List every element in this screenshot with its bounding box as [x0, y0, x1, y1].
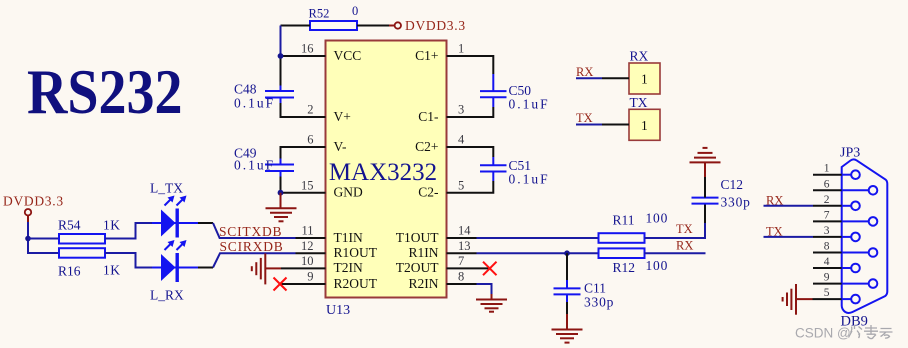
svg-text:TX: TX	[630, 95, 648, 110]
U13 designator	[326, 303, 350, 318]
svg-text:SCIRXDB: SCIRXDB	[220, 239, 284, 254]
svg-text:V-: V-	[334, 139, 348, 154]
svg-text:T1OUT: T1OUT	[396, 230, 439, 245]
svg-text:8: 8	[458, 270, 464, 284]
power port DVDD3.3 left	[3, 194, 64, 223]
svg-text:6: 6	[307, 133, 313, 147]
pin 3	[447, 103, 477, 117]
node junction pin15	[278, 190, 284, 196]
svg-text:3: 3	[824, 225, 830, 237]
svg-text:C1+: C1+	[415, 48, 438, 63]
wire R52 left	[281, 25, 311, 27]
pin name T2OUT	[396, 260, 439, 275]
svg-text:C48: C48	[234, 82, 257, 97]
resistor R52	[309, 4, 359, 30]
wire LED TX out	[198, 222, 213, 224]
svg-text:V+: V+	[334, 109, 351, 124]
svg-text:R54: R54	[58, 218, 81, 233]
pin 16	[283, 42, 326, 57]
connector JP3 shell	[840, 146, 887, 313]
svg-text:RS232: RS232	[27, 57, 183, 127]
svg-text:1: 1	[458, 42, 464, 56]
net label RX right	[766, 194, 783, 208]
resistor R16	[58, 248, 105, 278]
wire R54 to LED TX	[105, 223, 152, 239]
JP3 pin 2 RX	[764, 194, 860, 210]
svg-text:L_RX: L_RX	[150, 288, 184, 303]
net label TX right	[766, 225, 783, 239]
op-amp U13 MAX3232 body	[326, 41, 447, 298]
svg-text:7: 7	[458, 254, 464, 268]
value 100 R12	[646, 258, 669, 273]
wire C51 to pin5	[477, 172, 494, 193]
svg-text:0: 0	[352, 4, 358, 18]
pin name T1IN	[334, 230, 363, 245]
svg-text:100: 100	[646, 211, 669, 226]
wire C50 to pin3	[477, 97, 494, 117]
svg-text:1K: 1K	[103, 218, 121, 233]
svg-text:R16: R16	[58, 264, 81, 279]
svg-text:14: 14	[458, 224, 471, 238]
capacitor C48	[234, 82, 294, 111]
ground at JP3 pin5	[783, 284, 813, 315]
svg-text:330p: 330p	[584, 295, 614, 310]
wire LED RX out	[198, 267, 213, 269]
pin name R2IN	[409, 276, 439, 291]
svg-text:0.1uF: 0.1uF	[234, 158, 275, 173]
svg-text:0.1uF: 0.1uF	[509, 172, 550, 187]
svg-text:TX: TX	[676, 222, 693, 236]
ground at pin10	[252, 253, 281, 284]
ground below pin15	[266, 193, 297, 222]
pin name T1OUT	[396, 230, 439, 245]
svg-text:9: 9	[307, 270, 313, 284]
svg-text:11: 11	[301, 224, 313, 238]
svg-text:4: 4	[824, 256, 830, 268]
wire pin8 to ground	[477, 284, 492, 294]
wire C48 to pin2	[281, 98, 296, 118]
svg-text:2: 2	[307, 103, 313, 117]
JP3 pin 9	[813, 272, 877, 288]
svg-text:7: 7	[824, 209, 830, 221]
resistor R54	[58, 218, 105, 244]
svg-text:5: 5	[458, 178, 464, 192]
svg-text:L_TX: L_TX	[150, 181, 183, 196]
svg-text:SCITXDB: SCITXDB	[219, 224, 282, 239]
LED L_RX	[150, 240, 198, 303]
pin name T2IN	[334, 260, 363, 275]
ground above C12	[690, 148, 721, 198]
svg-text:TX: TX	[576, 111, 593, 125]
svg-text:1: 1	[641, 72, 648, 87]
pin 12	[296, 239, 326, 253]
ground at pin8	[476, 294, 507, 312]
svg-text:R1IN: R1IN	[409, 245, 439, 260]
svg-text:C2+: C2+	[415, 139, 438, 154]
pin 5	[447, 178, 477, 192]
svg-text:RX: RX	[766, 194, 783, 208]
svg-text:R11: R11	[613, 213, 635, 228]
JP3 pin 5 ground	[813, 287, 860, 303]
pin 4	[447, 133, 477, 147]
no-connect X pin9	[274, 278, 287, 291]
svg-text:CSDN @: CSDN @	[795, 325, 851, 340]
JP3 pin 6	[813, 178, 877, 194]
svg-text:GND: GND	[334, 184, 363, 199]
JP3 pin 7	[813, 209, 877, 225]
pin name C2-	[418, 184, 439, 199]
pin 9	[280, 270, 326, 284]
svg-text:R52: R52	[309, 7, 330, 21]
pin name VCC	[334, 48, 362, 63]
capacitor C11	[554, 253, 615, 309]
svg-text:T1IN: T1IN	[334, 230, 363, 245]
svg-text:R2IN: R2IN	[409, 276, 439, 291]
svg-text:10: 10	[301, 254, 314, 268]
LED L_TX	[150, 181, 198, 238]
pin 10	[281, 254, 326, 268]
pin 14	[447, 224, 477, 238]
svg-text:100: 100	[646, 258, 669, 273]
pin name C1-	[418, 109, 439, 124]
no-connect X pin7	[483, 262, 497, 276]
svg-text:16: 16	[301, 42, 314, 56]
svg-text:C11: C11	[584, 281, 606, 296]
wire diagonal to SCIRXDB	[213, 253, 296, 267]
pin name C1+	[415, 48, 438, 63]
capacitor C49	[234, 146, 294, 173]
svg-text:RX: RX	[630, 49, 649, 64]
wire DVDD to resistors	[28, 222, 59, 253]
pin 2	[296, 103, 326, 117]
wire R11 to C12	[645, 223, 706, 238]
wire pin14 to R11	[477, 237, 599, 239]
svg-text:MAX3232: MAX3232	[329, 159, 437, 186]
pin 11	[296, 224, 326, 238]
svg-text:R1OUT: R1OUT	[334, 245, 378, 260]
wire R12 right	[645, 252, 706, 254]
pin name GND	[334, 184, 363, 199]
JP3 pin 4	[813, 256, 860, 272]
pin 8	[447, 270, 477, 284]
pin 13	[447, 239, 477, 253]
capacitor C50	[480, 83, 550, 112]
JP3 pin 3 TX	[764, 225, 860, 241]
power port DVDD3.3 top	[389, 18, 466, 33]
JP3 pin 8	[813, 241, 877, 257]
svg-text:C1-: C1-	[418, 109, 439, 124]
node junction pin16	[278, 53, 284, 59]
svg-text:2: 2	[824, 194, 830, 206]
capacitor C12	[692, 177, 751, 223]
svg-text:RX: RX	[576, 65, 593, 79]
svg-text:3: 3	[458, 103, 464, 117]
wire diagonal to SCITXDB	[213, 223, 296, 238]
connector TX pin1	[629, 95, 660, 141]
svg-text:C12: C12	[721, 177, 744, 192]
svg-text:1: 1	[641, 118, 648, 133]
svg-text:T2OUT: T2OUT	[396, 260, 439, 275]
wire pin4 to C51	[477, 147, 494, 165]
svg-text:1: 1	[824, 163, 830, 175]
value 100 R11	[646, 211, 669, 226]
svg-text:0.1uF: 0.1uF	[234, 96, 275, 111]
svg-text:JP3: JP3	[840, 146, 860, 161]
net label RX mid	[676, 239, 693, 253]
svg-text:U13: U13	[326, 303, 350, 318]
pin name V+	[334, 109, 351, 124]
svg-text:15: 15	[301, 178, 314, 192]
resistor R12	[599, 248, 645, 275]
pin name R1IN	[409, 245, 439, 260]
title RS232	[27, 57, 183, 127]
svg-text:0.1uF: 0.1uF	[509, 97, 550, 112]
wire TX connector	[576, 124, 629, 126]
capacitor C51	[480, 158, 550, 187]
wire C49 to pin15	[281, 171, 296, 193]
pin 6	[296, 133, 326, 147]
svg-text:13: 13	[458, 239, 471, 253]
wire pin13 to R12	[477, 252, 599, 254]
svg-text:330p: 330p	[721, 195, 751, 210]
svg-text:RX: RX	[676, 239, 693, 253]
watermark CSDN	[795, 325, 893, 340]
wire pin1 to C50	[477, 56, 494, 91]
pin name C2+	[415, 139, 438, 154]
wire R16 to LED RX	[105, 253, 152, 268]
svg-text:6: 6	[824, 178, 830, 190]
pin name R2OUT	[334, 276, 378, 291]
net label TX mid	[676, 222, 693, 236]
svg-text:R12: R12	[613, 260, 636, 275]
connector RX pin1	[629, 49, 660, 95]
svg-text:DVDD3.3: DVDD3.3	[3, 194, 64, 209]
svg-text:VCC: VCC	[334, 48, 362, 63]
svg-text:1K: 1K	[103, 263, 121, 278]
net label SCIRXDB	[220, 239, 284, 254]
svg-text:4: 4	[458, 133, 465, 147]
pin name V-	[334, 139, 348, 154]
node junction DVDD	[25, 236, 31, 242]
ground below C11	[552, 294, 583, 342]
pin 7	[447, 254, 490, 268]
wire to R54	[28, 238, 59, 240]
value 1K R54	[103, 218, 121, 233]
svg-text:8: 8	[824, 241, 830, 253]
wire RX connector	[576, 77, 629, 79]
svg-text:R2OUT: R2OUT	[334, 276, 378, 291]
svg-text:TX: TX	[766, 225, 783, 239]
svg-text:9: 9	[824, 272, 830, 284]
svg-text:5: 5	[824, 287, 830, 299]
svg-text:T2IN: T2IN	[334, 260, 363, 275]
wire pin6 to C49	[281, 147, 296, 165]
net label TX top	[576, 111, 593, 125]
wire vertical R52 to C48	[280, 26, 282, 92]
net label RX top	[576, 65, 593, 79]
svg-text:12: 12	[301, 239, 314, 253]
pin name R1OUT	[334, 245, 378, 260]
svg-text:DVDD3.3: DVDD3.3	[405, 18, 466, 33]
resistor R11	[599, 213, 645, 243]
net label SCITXDB	[219, 224, 282, 239]
DB9 label	[841, 313, 868, 329]
svg-text:C2-: C2-	[418, 184, 439, 199]
pin 1	[447, 42, 477, 57]
node junction C11	[564, 250, 570, 256]
pin 15	[296, 178, 326, 192]
value 1K R16	[103, 263, 121, 278]
wire R52 right	[357, 25, 389, 27]
JP3 pin 1	[813, 163, 860, 179]
